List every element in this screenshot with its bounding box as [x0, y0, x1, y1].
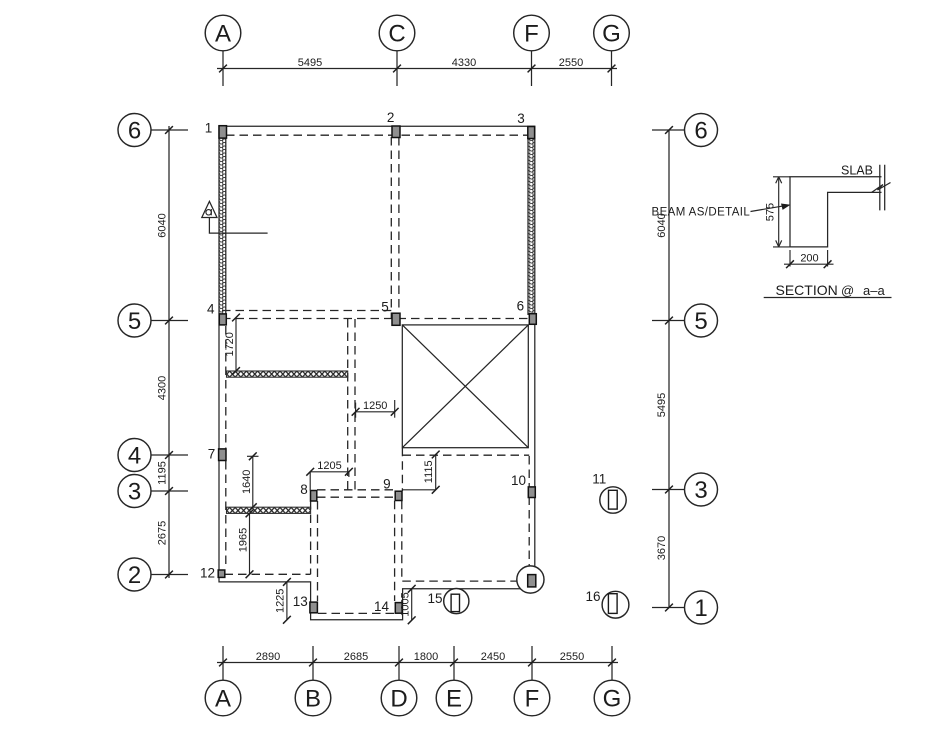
- column C8: [311, 491, 317, 502]
- column C2: [392, 126, 400, 138]
- svg-text:1: 1: [205, 120, 213, 135]
- svg-text:E: E: [446, 686, 462, 713]
- column C3: [528, 127, 535, 139]
- grid leader F bottom: [531, 646, 533, 680]
- dim 1720: [224, 314, 240, 375]
- svg-text:2675: 2675: [157, 521, 169, 545]
- svg-text:2: 2: [387, 110, 395, 125]
- right wall hatch: [528, 139, 534, 314]
- dim 1205: [306, 460, 353, 491]
- svg-text:2550: 2550: [560, 651, 584, 663]
- grid leader 1 right: [652, 607, 685, 609]
- grid leader 2 left: [151, 574, 188, 576]
- beam col9-col14 right edge (dashed): [401, 501, 403, 580]
- grid leader B bottom: [312, 646, 314, 680]
- title SECTION @ a-a: [764, 282, 892, 298]
- column C4: [219, 314, 226, 325]
- column C1: [219, 126, 227, 138]
- grid bubble E bottom: [436, 680, 472, 716]
- left wall inner edge below row5 (dashed): [225, 326, 227, 569]
- svg-text:SLAB: SLAB: [841, 164, 873, 178]
- svg-text:2450: 2450: [481, 651, 505, 663]
- beam col8-col9 upper edge (dashed): [317, 489, 395, 491]
- svg-text:1195: 1195: [157, 461, 169, 485]
- svg-text:1720: 1720: [224, 332, 236, 356]
- svg-text:7: 7: [208, 447, 216, 462]
- beam col8-col9 lower edge (dashed): [317, 496, 395, 498]
- svg-text:575: 575: [765, 203, 777, 221]
- right wall inner edge below stair (dashed): [528, 456, 530, 573]
- svg-text:D: D: [390, 686, 407, 713]
- column C16 circle symbol: [602, 591, 629, 618]
- hatched beam band upper: [227, 371, 348, 377]
- svg-text:2550: 2550: [559, 57, 583, 69]
- left wall hatch: [220, 138, 226, 314]
- column at F/2 with circle: [517, 566, 544, 593]
- left wall inner line: [225, 131, 227, 316]
- column C15 circle symbol: [444, 589, 469, 614]
- beam row5 lower edge col4-col6 (dashed): [222, 318, 528, 320]
- grid bubble F top: [514, 15, 550, 51]
- svg-text:4300: 4300: [157, 376, 169, 400]
- grid bubble 1 right: [685, 591, 718, 624]
- section marker a triangle: [202, 201, 268, 233]
- svg-text:200: 200: [800, 253, 818, 265]
- bottom dimension line: [217, 662, 618, 664]
- svg-text:4: 4: [128, 443, 141, 470]
- grid bubble A bottom: [205, 680, 241, 716]
- svg-text:A: A: [215, 686, 231, 713]
- svg-text:A: A: [215, 21, 231, 48]
- svg-text:6: 6: [517, 299, 525, 314]
- grid leader 3 left: [151, 490, 188, 492]
- column C14: [395, 603, 402, 614]
- label BEAM AS/DETAIL with arrow: [652, 204, 791, 219]
- column C13: [310, 602, 318, 613]
- grid bubble C top: [379, 15, 415, 51]
- svg-text:15: 15: [427, 591, 442, 606]
- svg-text:8: 8: [300, 482, 308, 497]
- top dimension line: [217, 68, 617, 70]
- svg-text:1965: 1965: [238, 528, 250, 552]
- svg-text:3: 3: [128, 479, 141, 506]
- svg-text:1225: 1225: [275, 589, 287, 613]
- dim 1225: [275, 578, 291, 624]
- grid bubble 4 left: [118, 439, 151, 472]
- svg-text:G: G: [602, 21, 621, 48]
- section detail break zigzag: [872, 183, 891, 193]
- grid bubble D bottom: [381, 680, 417, 716]
- hatched beam band lower: [227, 507, 311, 513]
- dim 1250: [352, 400, 399, 418]
- grid leader 5 right: [652, 320, 685, 322]
- column C5: [392, 313, 400, 325]
- grid bubble A top: [205, 15, 241, 51]
- beam below stair box (dashed): [403, 454, 530, 456]
- beam mid vertical right edge (dashed): [354, 319, 356, 490]
- svg-text:1115: 1115: [423, 460, 435, 483]
- svg-text:G: G: [603, 686, 622, 713]
- dim 1965: [238, 510, 254, 579]
- svg-text:2: 2: [128, 562, 141, 589]
- column C11 circle symbol: [600, 487, 626, 513]
- grid bubble B bottom: [295, 680, 331, 716]
- grid bubble 3 left: [118, 475, 151, 508]
- svg-text:5495: 5495: [656, 393, 668, 417]
- grid bubble 6 left: [118, 114, 151, 147]
- svg-text:1005: 1005: [400, 592, 412, 616]
- svg-text:C: C: [388, 21, 405, 48]
- svg-text:3670: 3670: [656, 536, 668, 560]
- svg-text:3: 3: [694, 477, 707, 504]
- svg-text:4: 4: [207, 302, 215, 317]
- svg-text:5: 5: [694, 308, 707, 335]
- svg-text:10: 10: [511, 473, 526, 488]
- grid bubble 3 right: [685, 473, 718, 506]
- svg-text:2685: 2685: [344, 651, 368, 663]
- grid leader C top: [396, 51, 398, 86]
- dim 1115: [402, 451, 439, 494]
- svg-text:14: 14: [374, 599, 390, 614]
- dim 1640: [241, 452, 259, 511]
- beam colC right edge rows6-5 (dashed): [398, 137, 400, 318]
- dim 1005: [400, 585, 416, 624]
- grid leader A bottom: [222, 646, 224, 680]
- svg-text:1: 1: [694, 595, 707, 622]
- grid leader 5 left: [151, 320, 188, 322]
- dim 575 (section): [765, 177, 791, 247]
- left dimension line: [168, 126, 170, 578]
- grid leader E bottom: [453, 646, 455, 680]
- grid bubble 5 left: [118, 304, 151, 337]
- grid leader G top: [611, 51, 613, 86]
- grid bubble 6 right: [685, 114, 718, 147]
- column C6: [529, 314, 536, 325]
- beam col12 to col13 line (dashed): [225, 573, 311, 575]
- beam mid vertical left edge (dashed): [347, 319, 349, 490]
- beam col8-col13 right edge (dashed): [317, 501, 319, 601]
- beam colC left edge rows6-5 (dashed): [390, 137, 392, 318]
- svg-text:F: F: [525, 686, 540, 713]
- svg-text:@: @: [841, 283, 854, 298]
- svg-text:1800: 1800: [414, 651, 438, 663]
- svg-text:BEAM AS/DETAIL: BEAM AS/DETAIL: [652, 207, 751, 219]
- grid leader D bottom: [398, 646, 400, 680]
- grid bubble 2 left: [118, 558, 151, 591]
- column C12: [218, 570, 225, 577]
- beam row5 upper edge col4-col5 (dashed): [222, 310, 391, 312]
- svg-text:F: F: [524, 21, 539, 48]
- svg-text:11: 11: [592, 472, 606, 487]
- svg-text:5: 5: [128, 308, 141, 335]
- grid bubble G bottom: [594, 680, 630, 716]
- section detail beam profile: [790, 177, 882, 247]
- svg-text:16: 16: [585, 589, 600, 604]
- beam col13-col14 (dashed): [318, 612, 395, 614]
- column C9: [395, 491, 402, 500]
- svg-text:1205: 1205: [317, 460, 341, 472]
- beam row6 (dashed): [226, 134, 531, 136]
- svg-text:12: 12: [200, 566, 215, 581]
- svg-text:B: B: [305, 686, 321, 713]
- grid leader 6 right: [652, 129, 685, 131]
- svg-text:4330: 4330: [452, 57, 476, 69]
- column C10: [528, 487, 535, 498]
- svg-text:5: 5: [381, 300, 389, 315]
- grid leader A top: [222, 51, 224, 86]
- grid leader 4 left: [151, 454, 188, 456]
- right dimension line: [668, 130, 670, 608]
- svg-text:3: 3: [517, 111, 525, 126]
- svg-text:9: 9: [383, 477, 391, 492]
- svg-text:2890: 2890: [256, 651, 280, 663]
- beam col9-col14 left edge (dashed): [394, 501, 396, 601]
- grid leader 3 right: [652, 489, 685, 491]
- svg-text:6: 6: [694, 118, 707, 145]
- svg-text:a–a: a–a: [863, 283, 885, 298]
- svg-text:5495: 5495: [298, 57, 322, 69]
- section detail break lines: [880, 165, 885, 211]
- beam col14-col16 (dashed): [402, 580, 528, 582]
- grid bubble F bottom: [514, 680, 550, 716]
- grid bubble 5 right: [685, 304, 718, 337]
- column C7: [219, 449, 226, 461]
- slab outline (solid): [219, 126, 535, 620]
- grid bubble G top: [594, 15, 630, 51]
- grid leader F top: [531, 51, 533, 86]
- svg-text:6040: 6040: [157, 213, 169, 237]
- beam col8-col13 left edge (dashed): [310, 501, 312, 574]
- svg-text:6: 6: [128, 118, 141, 145]
- svg-text:1250: 1250: [363, 400, 387, 412]
- stair opening box with X: [402, 325, 528, 448]
- grid leader G bottom: [611, 646, 613, 680]
- beam col9 left edge vertical stub (dashed): [401, 448, 403, 491]
- right wall inner line: [527, 131, 529, 315]
- dim 200 (section): [784, 250, 834, 268]
- svg-text:1640: 1640: [241, 470, 253, 494]
- grid leader 6 left: [151, 129, 188, 131]
- svg-text:13: 13: [293, 594, 308, 609]
- svg-text:SECTION: SECTION: [776, 282, 838, 298]
